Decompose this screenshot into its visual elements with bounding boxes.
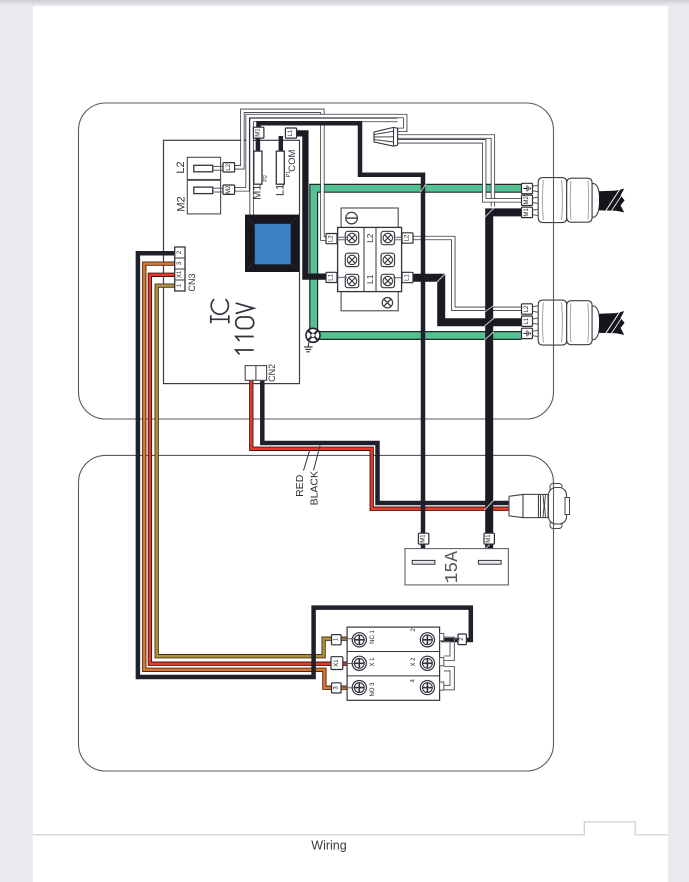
- svg-text:M1: M1: [486, 534, 492, 543]
- wire: black CN3 pin2 looping around switch to tag 2: [138, 253, 471, 677]
- svg-text:L2: L2: [405, 234, 411, 241]
- svg-text:L2: L2: [226, 163, 232, 170]
- wire: orange CN3 pin3 to switch tag 3: [144, 264, 347, 688]
- top shadow band: [0, 0, 689, 6]
- tag L2 block right: [402, 233, 413, 243]
- svg-text:CN3: CN3: [187, 273, 197, 291]
- svg-text:L2: L2: [365, 233, 375, 243]
- footer separator with tab: [33, 822, 668, 835]
- S1 jumper link rows 2-3: [444, 667, 455, 690]
- svg-text:RED: RED: [294, 474, 306, 497]
- tag M1 breaker right: [484, 533, 494, 544]
- TB1 center strip: [363, 227, 365, 291]
- relay M2 terminal leads: [213, 187, 223, 189]
- component L1 (varistor): [276, 151, 284, 184]
- gland 1 tag stubs: [533, 185, 539, 215]
- svg-text:L1: L1: [275, 184, 287, 196]
- svg-text:P2: P2: [263, 175, 269, 182]
- tag 1 (switch): [332, 635, 342, 645]
- tag L2 on relay: [223, 163, 235, 172]
- gland 1 tag M1: [522, 207, 533, 217]
- ground screw on green wire: [306, 328, 320, 342]
- cable 2 (black cable exiting gland 2): [599, 311, 625, 335]
- gland 2 tag PE (ground): [522, 328, 533, 338]
- label 110V: [236, 303, 254, 354]
- svg-text:L2: L2: [524, 305, 530, 312]
- CB1 blade terminal left: [412, 560, 435, 564]
- terminal block TB1 outer body: [341, 208, 398, 311]
- svg-text:M2: M2: [176, 196, 188, 211]
- tag L2 block left: [326, 234, 337, 244]
- transformer T1 (blue square): [245, 215, 299, 272]
- tag 2 (switch, on black loop wire): [458, 634, 466, 645]
- TB1 inner terminal body: [338, 227, 402, 291]
- svg-text:L1: L1: [288, 129, 294, 136]
- wire nut (twist splice connector): [374, 127, 398, 146]
- svg-text:L2: L2: [329, 235, 335, 242]
- wire: white nut output 1 to M1 junction at gland: [397, 137, 493, 207]
- wire: white W1 from relay L2 tag up over board to terminal block left L2 tag: [232, 111, 339, 239]
- S1 row dividers: [347, 651, 440, 653]
- relay L2 terminal leads: [213, 165, 223, 167]
- connector CN2: [245, 366, 266, 381]
- svg-text:CN2: CN2: [267, 364, 277, 382]
- wire: white W2 from relay M2 tag up and right into wire nut: [232, 116, 405, 189]
- tag X1 (switch): [331, 657, 343, 670]
- wire: black M1 thick from gland1 M1 tag down to 15A breaker right terminal: [489, 212, 521, 560]
- svg-text:X1: X1: [177, 270, 183, 278]
- TB1 mounting screw bottom: [382, 298, 392, 308]
- wire: black M1 run from M1 tag over top down to 15A breaker left terminal: [259, 123, 424, 560]
- wire: dark yellow CN3 pin1 to switch tag 1: [157, 286, 347, 657]
- IC control board outline: [164, 140, 300, 383]
- svg-text:COM: COM: [287, 149, 298, 171]
- tag M1 breaker left: [418, 533, 428, 544]
- component M1 (varistor): [254, 151, 262, 184]
- relay L2 box: [187, 157, 220, 179]
- svg-text:X 1: X 1: [370, 657, 376, 667]
- svg-text:NC 1: NC 1: [370, 630, 376, 644]
- gland 1 tag M2: [522, 195, 533, 205]
- tag M1 (board): [253, 127, 264, 138]
- svg-text:NO 3: NO 3: [370, 682, 376, 697]
- enclosure box 1 (control box, top): [79, 103, 554, 419]
- switch lead lines tags to screws: [341, 639, 458, 688]
- S1 screws: [352, 633, 434, 695]
- svg-text:M1: M1: [524, 208, 530, 217]
- svg-text:M1: M1: [256, 128, 262, 137]
- svg-text:M1: M1: [252, 185, 264, 200]
- wire: red CN3 pin X1 to switch tag X1: [150, 275, 347, 664]
- enclosure box 2 (junction box, bottom): [79, 455, 554, 771]
- TB1 mounting screw top: [346, 212, 358, 224]
- connector CN3: [175, 247, 185, 291]
- svg-text:15A: 15A: [443, 551, 463, 584]
- tag L1 block left: [326, 272, 337, 282]
- label RED leader: [304, 451, 310, 471]
- relay M2 box: [187, 180, 220, 214]
- cable 1 (black cable exiting gland 1): [599, 189, 625, 213]
- svg-text:BLACK: BLACK: [308, 471, 320, 505]
- gland 2 tag L2: [522, 304, 533, 314]
- svg-text:L1: L1: [365, 274, 375, 284]
- gland 1 tag PE (ground): [522, 183, 533, 193]
- wire: black stub M1 tag to M1 component: [256, 135, 261, 153]
- svg-text:M1: M1: [421, 534, 427, 543]
- svg-text:X 2: X 2: [411, 657, 417, 667]
- svg-text:L1: L1: [405, 274, 411, 281]
- svg-text:L2: L2: [175, 161, 187, 173]
- gland 2 tag stubs: [533, 306, 539, 337]
- relay L2 fuse element: [194, 165, 213, 172]
- wire: black L1 from L1 tag down to terminal block left L1 tag: [291, 133, 339, 276]
- strain relief cord grip: [509, 484, 570, 529]
- label BLACK leader: [314, 446, 321, 471]
- svg-text:M2: M2: [524, 195, 530, 204]
- wire: black from CN2 to strain relief: [262, 373, 510, 503]
- CB1 blade terminal right: [478, 560, 501, 564]
- svg-text:Wiring: Wiring: [311, 839, 346, 853]
- wire: white W3 from transformer top up and right to wire nut: [252, 120, 398, 217]
- tag 3 (switch): [332, 683, 342, 693]
- svg-text:X1: X1: [334, 659, 340, 667]
- label IC: [211, 299, 229, 323]
- enclosure border segments over glands: [553, 177, 555, 223]
- wire: white nut output 2 to gland1 M2 tag: [397, 141, 522, 200]
- switch S1 terminal block body: [347, 627, 440, 700]
- TB1 lead lines tags to screws: [337, 237, 403, 277]
- cable gland 1 body: [538, 178, 599, 223]
- svg-text:L1: L1: [524, 317, 530, 324]
- cable gland 2 body: [538, 300, 599, 345]
- ground symbol: [304, 342, 313, 352]
- tag L1 (board): [285, 128, 296, 138]
- S1 jumper link rows 1-2: [444, 637, 455, 660]
- wire: black stub L1 tag to L1 component: [279, 136, 284, 153]
- tag L1 block right: [402, 272, 413, 282]
- crossover slashes on thick wires: [421, 184, 495, 550]
- wire: white L2 from terminal block right L2 tag to gland2 L2 tag: [404, 238, 522, 309]
- TB1 screws (6 clamp screws): [345, 231, 394, 287]
- wire: black L1 thick from terminal block right L1 tag to gland2 L1 tag: [404, 278, 522, 323]
- enclosure border segment over strain relief: [553, 481, 555, 531]
- wire: green ground wire from gland1 PE tag to ground screw to gland2 PE tag: [314, 188, 522, 335]
- circuit breaker CB1 15A body: [405, 549, 508, 585]
- svg-text:L1: L1: [329, 273, 335, 280]
- svg-text:M2: M2: [226, 185, 232, 194]
- tag M2 on relay: [223, 185, 235, 195]
- gland 2 tag L1: [522, 316, 533, 326]
- relay M2 fuse element: [194, 187, 213, 194]
- S1 right lug tabs: [440, 633, 444, 690]
- wire: red from CN2 to strain relief: [251, 373, 510, 509]
